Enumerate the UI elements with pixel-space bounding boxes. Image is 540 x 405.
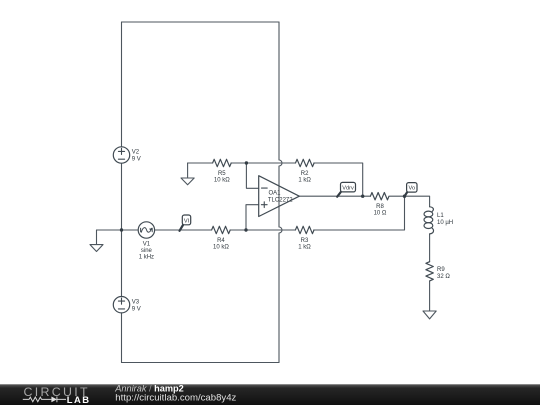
svg-text:V2: V2 — [132, 150, 140, 156]
ground G2 — [181, 163, 194, 185]
svg-text:10 kΩ: 10 kΩ — [213, 244, 229, 250]
svg-text:R2: R2 — [301, 171, 309, 177]
svg-text:TLC2272: TLC2272 — [268, 198, 293, 204]
svg-text:http://circuitlab.com/cab8y4z: http://circuitlab.com/cab8y4z — [115, 393, 236, 404]
logo diode — [51, 397, 57, 403]
ground G1 — [90, 230, 103, 252]
resistor R3 — [295, 226, 314, 233]
svg-text:R4: R4 — [217, 238, 225, 244]
net flag Vdrv — [337, 182, 355, 196]
wire right edge with crossover hops — [279, 22, 282, 363]
label R9 — [437, 267, 450, 280]
inductor L1 — [430, 207, 434, 212]
wire to op-amp noninverting input — [246, 205, 259, 230]
svg-text:Vo: Vo — [409, 186, 416, 192]
wire left edge upper — [121, 22, 123, 147]
resistor R2 — [296, 159, 315, 166]
wire R9 to ground — [429, 281, 431, 311]
label V1 — [139, 242, 154, 261]
svg-text:1 kΩ: 1 kΩ — [298, 244, 311, 250]
svg-text:R5: R5 — [218, 171, 226, 177]
voltage source V1 sine — [138, 222, 154, 238]
junction node dots — [120, 161, 406, 231]
label R3 — [298, 238, 311, 250]
label L1 — [437, 213, 453, 226]
wire bottom of loop — [122, 362, 280, 364]
svg-text:LAB: LAB — [67, 394, 91, 405]
svg-text:9 V: 9 V — [132, 306, 141, 312]
svg-text:10 µH: 10 µH — [437, 220, 453, 226]
wire ground to R5 — [188, 162, 213, 164]
label V3 — [132, 299, 141, 312]
svg-text:10 kΩ: 10 kΩ — [214, 177, 230, 183]
ground G3 — [423, 311, 436, 319]
wire R5 to R2 — [231, 162, 296, 164]
wire left edge middle — [121, 163, 123, 296]
svg-text:sine: sine — [141, 248, 153, 254]
wire op-amp output to R8 — [299, 195, 370, 197]
logo resistor-diode line — [23, 397, 66, 403]
svg-text:L1: L1 — [437, 213, 444, 219]
resistor R8 — [370, 193, 389, 200]
wire node A row y=230 left — [97, 229, 139, 231]
wire left edge lower — [121, 313, 123, 363]
svg-text:VI: VI — [184, 218, 190, 224]
resistor R5 — [213, 159, 232, 166]
svg-text:10 Ω: 10 Ω — [374, 210, 387, 216]
label R4 — [213, 238, 229, 250]
svg-text:Vdrv: Vdrv — [342, 186, 354, 192]
voltage source V3 — [113, 297, 129, 313]
wire R4 to R3 — [230, 229, 295, 231]
wire V1 to R4 — [155, 229, 212, 231]
svg-text:R3: R3 — [301, 238, 309, 244]
svg-text:1 kΩ: 1 kΩ — [298, 177, 311, 183]
label R2 — [298, 171, 311, 183]
svg-text:V3: V3 — [132, 299, 140, 305]
voltage source V2 — [113, 147, 129, 163]
op-amp OA1 — [259, 176, 300, 217]
wire R8 to L1 — [390, 196, 430, 206]
svg-text:32 Ω: 32 Ω — [437, 274, 450, 280]
label OA1 — [268, 190, 293, 203]
wire L1 to R9 — [429, 234, 431, 262]
svg-text:V1: V1 — [143, 242, 151, 248]
svg-text:R8: R8 — [376, 204, 384, 210]
label R5 — [214, 171, 230, 183]
svg-text:R9: R9 — [437, 267, 445, 273]
svg-text:OA1: OA1 — [269, 190, 282, 196]
label V2 — [132, 150, 141, 163]
wire R3 to Vo column — [314, 196, 405, 230]
resistor R4 — [212, 226, 231, 233]
wire to op-amp inverting input — [246, 163, 258, 188]
wire top of loop — [122, 21, 280, 23]
svg-text:1 kHz: 1 kHz — [139, 254, 154, 260]
label R8 — [374, 204, 387, 216]
net flag Vo — [404, 183, 417, 197]
net flag VI — [180, 215, 191, 231]
resistor R9 — [426, 262, 433, 281]
footer bar — [0, 384, 540, 405]
svg-text:9 V: 9 V — [132, 157, 141, 163]
wire R2 to feedback column — [314, 163, 363, 196]
